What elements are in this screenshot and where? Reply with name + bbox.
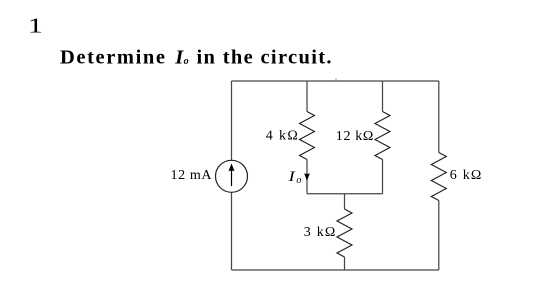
wire: 12k branch bottom — [382, 160, 384, 194]
wire: 4k branch bottom with Io — [306, 160, 308, 194]
current source arrowhead — [229, 163, 235, 171]
wire: 12k branch top — [382, 81, 384, 112]
svg-text:1: 1 — [28, 14, 43, 37]
svg-text:6 kΩ: 6 kΩ — [450, 168, 482, 183]
wire: left vertical below source — [231, 192, 233, 270]
svg-text:in the circuit.: in the circuit. — [197, 46, 332, 68]
current source I1 circle — [216, 160, 248, 192]
wire: 3k stub from middle wire — [344, 194, 346, 209]
wire: middle horizontal node wire — [307, 193, 383, 195]
svg-text:12 mA: 12 mA — [171, 168, 213, 183]
wire: 4k branch top — [306, 81, 308, 112]
svg-text:o: o — [184, 56, 189, 67]
wire: right vertical below 6k — [438, 201, 440, 271]
resistor R 6k zigzag — [431, 153, 446, 201]
resistor R 3k zigzag — [337, 209, 352, 257]
wire: top horizontal — [232, 80, 439, 82]
svg-text:4 kΩ: 4 kΩ — [266, 129, 298, 144]
wire: 3k branch bottom — [344, 257, 346, 270]
Io arrowhead on 4k branch — [304, 173, 310, 181]
svg-text:Determine: Determine — [60, 46, 165, 68]
resistor R 12k zigzag — [375, 112, 390, 160]
wire: bottom horizontal — [232, 269, 439, 271]
node tick at top center — [335, 78, 337, 80]
svg-text:o: o — [296, 175, 301, 186]
wire: right vertical above 6k — [438, 81, 440, 153]
svg-text:12 kΩ: 12 kΩ — [336, 129, 374, 144]
svg-text:3 kΩ: 3 kΩ — [304, 225, 336, 240]
wire: left vertical above source — [231, 81, 233, 160]
resistor R 4k zigzag — [300, 112, 315, 160]
svg-text:I: I — [287, 168, 296, 185]
current source arrow shaft — [231, 168, 233, 186]
